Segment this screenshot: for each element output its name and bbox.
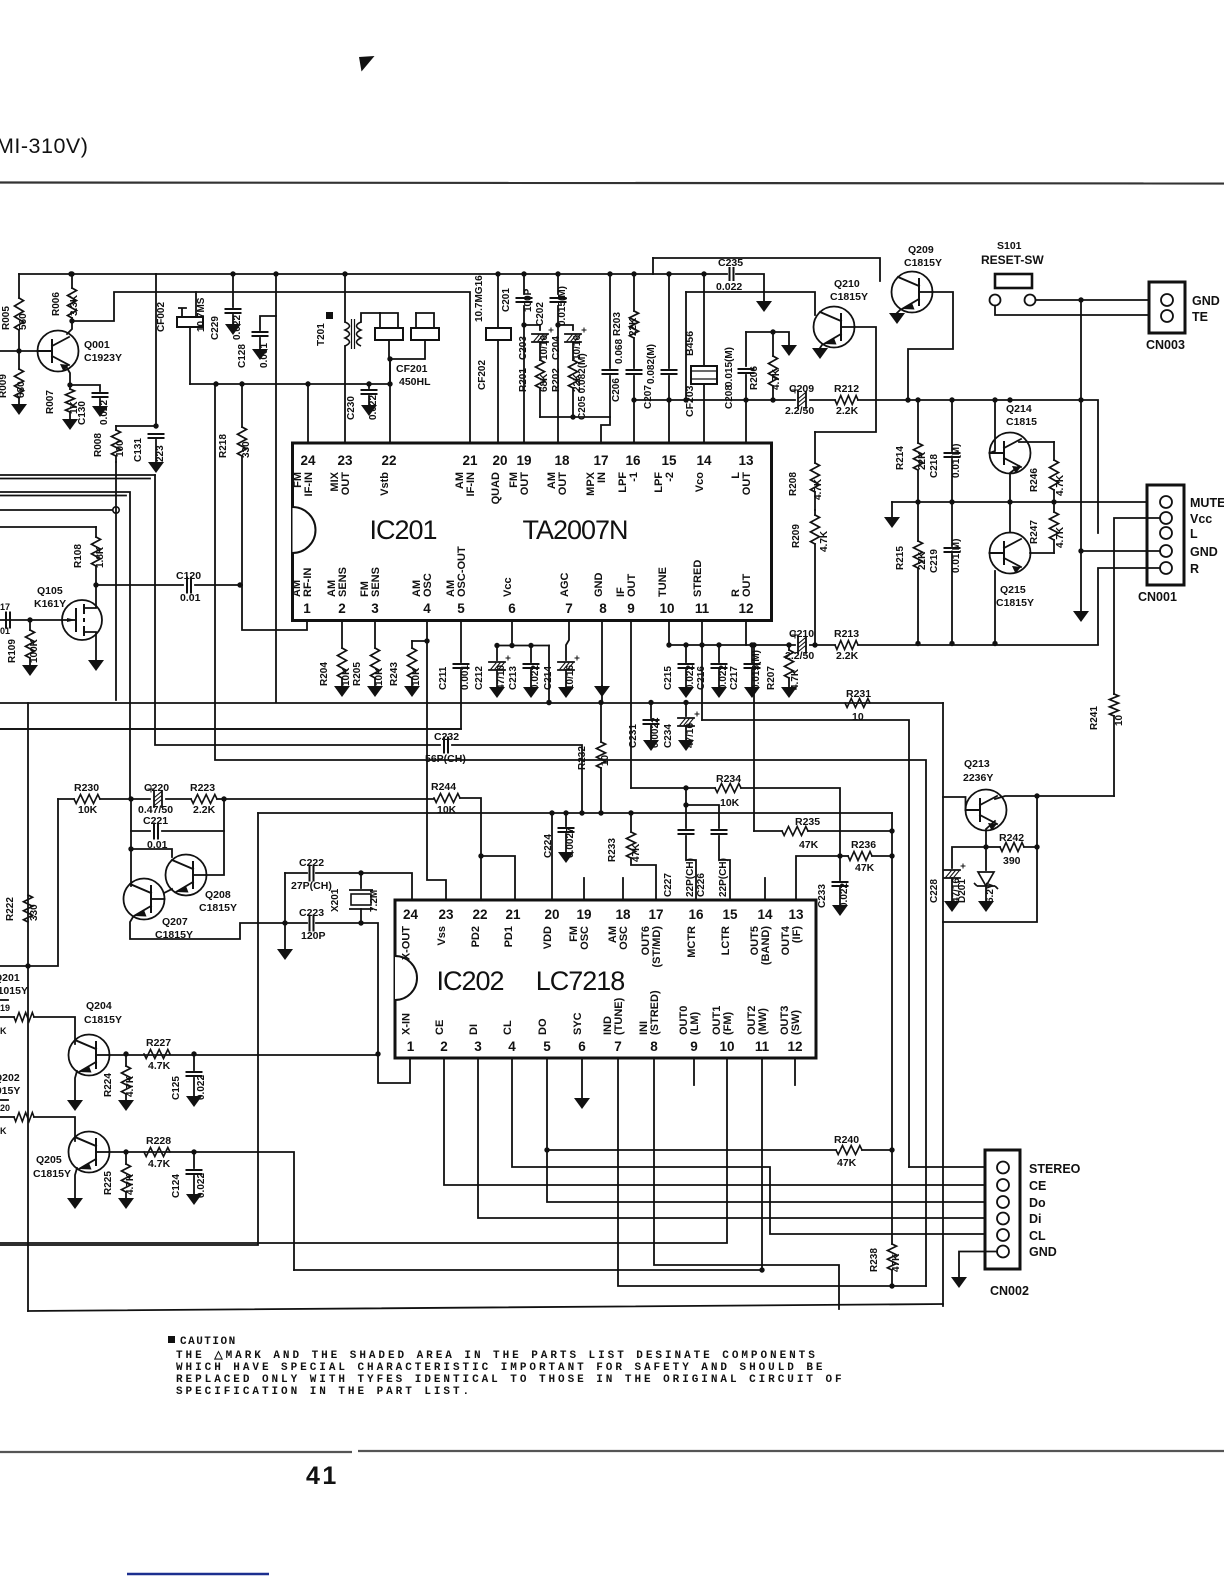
wire R audio bus y644 xyxy=(669,644,795,646)
svg-text:CF002: CF002 xyxy=(156,302,167,332)
ceramic filter CF201 450HL xyxy=(379,313,381,328)
capacitor C226 22P(CH) xyxy=(686,805,719,828)
svg-text:0.068: 0.068 xyxy=(614,339,625,364)
capacitor C216 0.022 xyxy=(718,645,720,662)
svg-text:RESET-SW: RESET-SW xyxy=(981,253,1044,267)
ground Q209 emitter xyxy=(897,310,900,313)
svg-text:R212: R212 xyxy=(834,383,859,395)
svg-text:10/16: 10/16 xyxy=(565,665,576,690)
resistor R207 4.7K xyxy=(788,645,790,650)
bus y702 xyxy=(28,702,943,704)
svg-text:L: L xyxy=(1190,527,1198,541)
svg-text:Q205: Q205 xyxy=(36,1154,62,1166)
svg-text:C208: C208 xyxy=(724,385,735,409)
electrolytic C212 47/10 xyxy=(496,646,498,661)
wire pin2 CE to CN002 xyxy=(444,1058,997,1185)
svg-text:4.7K: 4.7K xyxy=(1055,474,1066,496)
resistor R209 4.7K xyxy=(814,510,816,515)
svg-text:0.015(M): 0.015(M) xyxy=(724,347,735,387)
wire pin4 column down to IC202 Vss xyxy=(427,641,446,900)
svg-text:0.022: 0.022 xyxy=(196,1075,207,1100)
wire y720 pin11 STRED to STEREO xyxy=(702,720,909,1167)
svg-text:0.022: 0.022 xyxy=(196,1173,207,1198)
svg-text:12: 12 xyxy=(787,1039,802,1054)
resistor R215 22K xyxy=(917,502,919,541)
svg-text:X-IN: X-IN xyxy=(401,1013,413,1035)
svg-text:0.022: 0.022 xyxy=(718,665,729,690)
svg-text:OUT: OUT xyxy=(519,472,531,496)
wire pin12 column xyxy=(745,621,747,645)
svg-text:S101: S101 xyxy=(997,240,1022,252)
svg-text:R213: R213 xyxy=(834,628,859,640)
resistor R235 47K xyxy=(754,830,782,832)
svg-text:10: 10 xyxy=(852,711,864,723)
svg-text:R240: R240 xyxy=(834,1134,859,1146)
svg-text:R225: R225 xyxy=(103,1171,114,1195)
resistor R213 2.2K xyxy=(835,641,858,650)
node 216 xyxy=(213,381,218,386)
svg-text:6: 6 xyxy=(578,1039,586,1054)
capacitor C201 100P xyxy=(523,274,525,294)
capacitor C235 0.022 xyxy=(730,268,734,280)
svg-text:C211: C211 xyxy=(438,666,449,690)
svg-text:0.082(M): 0.082(M) xyxy=(646,344,657,384)
capacitor C233 0.022 xyxy=(839,856,841,880)
svg-text:4.7K: 4.7K xyxy=(813,478,824,500)
svg-text:R205: R205 xyxy=(352,662,363,686)
wire pin11 column xyxy=(701,621,703,720)
svg-text:R005: R005 xyxy=(1,306,12,330)
wire xtal bottom rail y923 xyxy=(283,922,307,924)
svg-text:T201: T201 xyxy=(316,323,327,346)
wire CN002 GND to ground xyxy=(959,1252,997,1278)
svg-text:X-OUT: X-OUT xyxy=(401,926,413,961)
svg-text:100K: 100K xyxy=(29,638,40,663)
svg-text:C224: C224 xyxy=(543,834,554,858)
svg-text:R109: R109 xyxy=(7,639,18,663)
electrolytic C214 10/16 (pin7) xyxy=(566,621,569,660)
wire xtal top rail y873 xyxy=(285,872,307,874)
svg-text:C228: C228 xyxy=(929,879,940,903)
wire x258 rail xyxy=(0,813,258,1245)
svg-text:SYC: SYC xyxy=(572,1012,584,1035)
resistor R218 330 xyxy=(241,384,243,427)
blue footer line xyxy=(127,1573,269,1576)
node 308 xyxy=(305,381,310,386)
svg-text:K161Y: K161Y xyxy=(34,598,66,610)
connector CN001 xyxy=(1147,485,1184,585)
svg-text:19: 19 xyxy=(516,453,531,468)
svg-text:6: 6 xyxy=(508,601,516,616)
svg-text:OSC: OSC xyxy=(618,926,630,950)
wire C208 top to R206 xyxy=(746,332,789,345)
wire pin8 INI rail xyxy=(654,1058,839,1309)
svg-text:C209: C209 xyxy=(789,383,814,395)
svg-text:C130: C130 xyxy=(77,401,88,425)
svg-text:0.01(M): 0.01(M) xyxy=(951,444,962,478)
svg-text:C233: C233 xyxy=(817,884,828,908)
svg-text:R228: R228 xyxy=(146,1135,171,1147)
svg-text:2236Y: 2236Y xyxy=(963,772,993,784)
capacitor C205 0.082(M) xyxy=(609,274,611,368)
ceramic filter CF203 B456 xyxy=(703,274,705,366)
svg-text:DO: DO xyxy=(537,1018,549,1035)
svg-text:R207: R207 xyxy=(766,666,777,690)
svg-text:47/10: 47/10 xyxy=(496,665,507,690)
svg-text:11: 11 xyxy=(695,601,710,616)
svg-text:(FM): (FM) xyxy=(722,1011,734,1035)
svg-text:CE: CE xyxy=(434,1020,446,1035)
svg-text:47K: 47K xyxy=(855,862,875,874)
svg-text:8: 8 xyxy=(599,601,607,616)
wire Q205 emitter xyxy=(75,1168,77,1198)
svg-text:2.2K: 2.2K xyxy=(836,405,859,417)
svg-text:5: 5 xyxy=(457,601,465,616)
transistor Q209 C1815Y xyxy=(892,272,933,313)
svg-text:15: 15 xyxy=(661,453,677,468)
svg-text:C201: C201 xyxy=(501,288,512,312)
wire Q207 emitter to rail xyxy=(130,917,285,939)
bus end to Q213 base xyxy=(942,703,944,1306)
capacitor C219 0.01(M) xyxy=(951,502,953,546)
wire Q208 collector xyxy=(206,831,224,875)
svg-text:0.022: 0.022 xyxy=(685,665,696,690)
capacitor C208 0.015(M) xyxy=(745,332,747,366)
svg-text:R202: R202 xyxy=(551,368,562,392)
svg-text:100P: 100P xyxy=(523,288,534,312)
connector CN002 xyxy=(985,1150,1020,1269)
svg-text:4: 4 xyxy=(508,1039,516,1054)
svg-text:SENS: SENS xyxy=(370,567,382,597)
svg-text:223: 223 xyxy=(155,445,166,462)
capacitor C130 xyxy=(70,385,100,391)
svg-text:C232: C232 xyxy=(434,731,459,743)
zener D201 6.2V xyxy=(985,847,987,870)
svg-text:Q213: Q213 xyxy=(964,758,990,770)
transistor Q105 K161Y (FET) xyxy=(62,600,102,640)
svg-text:22K: 22K xyxy=(628,317,639,336)
svg-text:-2: -2 xyxy=(664,472,676,482)
svg-text:0.001: 0.001 xyxy=(460,665,471,690)
svg-text:(IF): (IF) xyxy=(791,926,803,943)
transistor Q215 C1815Y xyxy=(990,533,1031,574)
svg-text:WHICH HAVE SPECIAL CHARACTERIS: WHICH HAVE SPECIAL CHARACTERISTIC IMPORT… xyxy=(176,1362,825,1374)
svg-text:(BAND): (BAND) xyxy=(760,926,772,965)
wire to IC201 pin22 xyxy=(389,359,391,443)
resistor R231 10 xyxy=(845,699,870,708)
svg-text:(ST/MD): (ST/MD) xyxy=(651,926,663,968)
svg-text:R006: R006 xyxy=(51,292,62,316)
svg-text:C213: C213 xyxy=(508,666,519,690)
capacitor C124 0.022 xyxy=(193,1152,195,1168)
resistor R246 4.7K xyxy=(1053,442,1055,460)
wire R008 column continues xyxy=(115,462,117,700)
svg-text:18: 18 xyxy=(615,907,631,922)
wire left rail spur y966 xyxy=(0,799,58,966)
svg-text:0.022: 0.022 xyxy=(99,400,110,425)
resistor R204 10K (pin2) xyxy=(341,621,343,648)
svg-text:47K: 47K xyxy=(799,839,819,851)
svg-text:SPECIFICATION IN THE PART LIST: SPECIFICATION IN THE PART LIST. xyxy=(176,1386,472,1398)
resistor R201 68K xyxy=(539,342,541,360)
wire top-left supply xyxy=(19,273,156,275)
svg-text:Q001: Q001 xyxy=(84,339,110,351)
svg-text:4.7K: 4.7K xyxy=(771,368,782,390)
svg-text:C222: C222 xyxy=(299,857,324,869)
svg-text:3.3K: 3.3K xyxy=(69,294,80,316)
svg-text:IC201: IC201 xyxy=(369,515,436,545)
svg-text:4.7K: 4.7K xyxy=(790,668,801,690)
svg-text:22K: 22K xyxy=(917,551,928,570)
svg-text:C207: C207 xyxy=(643,385,654,409)
resistor R234 10K xyxy=(715,784,741,793)
svg-text:CF201: CF201 xyxy=(396,363,428,375)
svg-text:7: 7 xyxy=(614,1039,622,1054)
wire Q205 base rail R220 xyxy=(0,1116,14,1118)
svg-text:R235: R235 xyxy=(795,816,820,828)
wire S101 to CN003 GND xyxy=(1036,299,1161,301)
svg-text:Di: Di xyxy=(1029,1212,1042,1226)
svg-text:16: 16 xyxy=(688,907,704,922)
svg-text:Q202: Q202 xyxy=(0,1072,20,1084)
wire y760 rail xyxy=(215,384,926,1286)
capacitor C224 0.0027 xyxy=(565,813,567,826)
svg-text:21: 21 xyxy=(462,453,478,468)
svg-text:C206: C206 xyxy=(611,378,622,402)
svg-text:LC7218: LC7218 xyxy=(536,966,625,996)
ground Q105 source xyxy=(88,660,104,671)
capacitor C217 0.015(M) xyxy=(751,645,753,662)
svg-text:R204: R204 xyxy=(319,662,330,686)
svg-text:10: 10 xyxy=(1114,714,1125,726)
svg-text:6.2V: 6.2V xyxy=(985,882,996,903)
svg-text:CN001: CN001 xyxy=(1138,590,1177,604)
ceramic filter CF202 10.7MG16 xyxy=(497,274,499,328)
svg-text:R214: R214 xyxy=(895,446,906,470)
capacitor C222 27P(CH) xyxy=(310,866,314,881)
IC IC201 TA2007N body xyxy=(293,443,772,621)
safety mark square xyxy=(326,312,333,319)
resistor R233 47K xyxy=(630,813,632,832)
ground R007 xyxy=(62,419,78,430)
svg-text:0.0022: 0.0022 xyxy=(650,717,661,748)
svg-text:10.7MS: 10.7MS xyxy=(196,297,207,332)
svg-text:100: 100 xyxy=(115,440,126,457)
resistor R227 4.7K xyxy=(144,1050,170,1059)
svg-text:C120: C120 xyxy=(176,570,201,582)
svg-text:24: 24 xyxy=(403,907,419,922)
ground C131 xyxy=(148,462,164,473)
svg-text:10K: 10K xyxy=(341,667,352,686)
capacitor C204 10/16 xyxy=(558,325,573,330)
svg-text:0.022: 0.022 xyxy=(530,665,541,690)
transistor Q001 C1923Y xyxy=(38,331,79,372)
svg-text:IC202: IC202 xyxy=(436,966,503,996)
wire to IC201 pin24 xyxy=(307,384,309,443)
capacitor C223 120P xyxy=(310,916,314,931)
wire x686 xyxy=(685,292,687,400)
svg-text:(TUNE): (TUNE) xyxy=(613,997,625,1035)
transistor Q204 C1815Y xyxy=(69,1035,110,1076)
svg-text:Vcc: Vcc xyxy=(502,577,514,597)
svg-text:LCTR: LCTR xyxy=(720,926,732,955)
svg-text:Q204: Q204 xyxy=(86,1000,112,1012)
connector CN003 xyxy=(1149,282,1185,333)
svg-text:C1923Y: C1923Y xyxy=(84,352,122,364)
svg-text:C1815Y: C1815Y xyxy=(904,257,942,269)
svg-text:C204: C204 xyxy=(551,336,562,360)
capacitor C128 xyxy=(260,316,276,330)
svg-text:22P(CH): 22P(CH) xyxy=(685,858,696,897)
svg-text:C1015Y: C1015Y xyxy=(0,985,28,997)
resistor R202 22K xyxy=(572,342,574,360)
svg-text:20: 20 xyxy=(544,907,559,922)
svg-text:OUT: OUT xyxy=(340,472,352,496)
wire Q001 base xyxy=(0,350,38,352)
bottom rule xyxy=(0,1451,1224,1452)
svg-text:15: 15 xyxy=(722,907,738,922)
svg-text:OSC-OUT: OSC-OUT xyxy=(456,546,468,597)
svg-text:C231: C231 xyxy=(628,724,639,748)
capacitor C215 0.022 xyxy=(685,645,687,662)
svg-text:390: 390 xyxy=(1003,855,1021,867)
wire rail y478 twin xyxy=(0,478,150,480)
svg-text:C124: C124 xyxy=(171,1174,182,1198)
svg-text:4.7K: 4.7K xyxy=(148,1158,171,1170)
svg-text:68K: 68K xyxy=(539,373,550,392)
svg-text:R246: R246 xyxy=(1029,468,1040,492)
bottom rail y1306 xyxy=(28,1304,943,1311)
wire collector rail y1054 xyxy=(109,1054,378,1056)
svg-text:7: 7 xyxy=(565,601,573,616)
svg-text:22P(CH): 22P(CH) xyxy=(718,858,729,897)
svg-text:THE △MARK AND THE SHADED AREA: THE △MARK AND THE SHADED AREA IN THE PAR… xyxy=(176,1350,818,1362)
wire pin5 DO to CN002 xyxy=(547,1058,997,1202)
svg-text:CL: CL xyxy=(1029,1229,1046,1243)
resistor R240 47K xyxy=(547,1149,836,1151)
svg-text:47K: 47K xyxy=(891,1253,902,1272)
svg-text:R: R xyxy=(1190,562,1199,576)
wire rail y496 twin xyxy=(0,495,126,497)
svg-text:11: 11 xyxy=(755,1039,770,1054)
svg-text:IN: IN xyxy=(596,472,608,483)
resistor R232 10 xyxy=(600,703,602,742)
svg-text:C229: C229 xyxy=(210,316,221,340)
ground S101 branch xyxy=(1073,611,1089,622)
wire R223 to R244 rail y798 xyxy=(224,798,434,800)
svg-text:680: 680 xyxy=(16,381,27,398)
wire pin19 stub xyxy=(583,878,585,900)
node R006 bottom xyxy=(69,318,74,323)
svg-text:0.015(M): 0.015(M) xyxy=(751,650,762,690)
svg-text:R234: R234 xyxy=(716,773,741,785)
wire pin18 stub xyxy=(622,878,624,900)
svg-text:17: 17 xyxy=(0,602,10,612)
wire collector to AM IF line xyxy=(72,292,470,443)
wire y745 C232 rail xyxy=(155,475,440,745)
svg-text:C1815Y: C1815Y xyxy=(84,1014,122,1026)
svg-text:R247: R247 xyxy=(1029,520,1040,544)
node R108 bottom xyxy=(93,582,98,587)
svg-text:R230: R230 xyxy=(74,782,99,794)
svg-text:1: 1 xyxy=(303,601,311,616)
node R006 top xyxy=(69,271,74,276)
ground C235 xyxy=(756,301,772,312)
resistor R108 1.8K xyxy=(95,527,97,537)
svg-text:K: K xyxy=(0,1126,7,1136)
svg-text:C216: C216 xyxy=(696,666,707,690)
svg-text:R208: R208 xyxy=(788,472,799,496)
wire x276 vertical xyxy=(275,274,277,702)
capacitor C213 0.022 xyxy=(530,646,532,663)
svg-text:2.2/50: 2.2/50 xyxy=(785,405,814,417)
resistor R007 xyxy=(69,385,71,389)
node 390 xyxy=(387,381,392,386)
node Q001 emitter xyxy=(67,382,72,387)
svg-text:R227: R227 xyxy=(146,1037,171,1049)
svg-text:C214: C214 xyxy=(543,666,554,690)
wire Q213 emitter xyxy=(986,821,995,847)
svg-text:C226: C226 xyxy=(696,873,707,897)
svg-text:GND: GND xyxy=(1029,1245,1057,1259)
svg-text:R224: R224 xyxy=(103,1073,114,1097)
wire L bus y400 xyxy=(634,399,795,401)
electrolytic C210 2.2/50 xyxy=(798,637,806,653)
svg-text:3: 3 xyxy=(474,1039,482,1054)
transistor Q214 C1815 xyxy=(990,433,1031,474)
svg-text:RF-IN: RF-IN xyxy=(302,568,314,597)
resistor R203 22K + capacitor C206 0.068 xyxy=(633,274,635,311)
svg-text:C1815Y: C1815Y xyxy=(199,902,237,914)
svg-text:Q210: Q210 xyxy=(834,278,860,290)
svg-text:C230: C230 xyxy=(346,396,357,420)
svg-text:56P(CH): 56P(CH) xyxy=(425,753,466,765)
svg-text:4.7K: 4.7K xyxy=(125,1075,136,1097)
wire R pin xyxy=(1098,568,1160,644)
svg-text:MCTR: MCTR xyxy=(686,926,698,958)
wire R-path feeder y646 xyxy=(668,621,670,645)
svg-text:CE: CE xyxy=(1029,1179,1046,1193)
svg-text:330: 330 xyxy=(241,441,252,458)
svg-text:Q207: Q207 xyxy=(162,916,188,928)
svg-text:8: 8 xyxy=(650,1039,658,1054)
svg-text:R222: R222 xyxy=(5,897,16,921)
transistor Q210 C1815Y xyxy=(814,307,855,348)
svg-text:3: 3 xyxy=(371,601,379,616)
svg-text:4.7K: 4.7K xyxy=(148,1060,171,1072)
svg-text:C212: C212 xyxy=(474,666,485,690)
wire xtal left leg xyxy=(284,873,286,949)
resistor R005 xyxy=(18,274,20,298)
wire pin6 SYC ground xyxy=(581,1058,583,1098)
crystal X201 7.2M xyxy=(360,873,362,888)
svg-text:C205 0.082(M): C205 0.082(M) xyxy=(577,353,588,420)
svg-text:C210: C210 xyxy=(789,628,814,640)
svg-text:VDD: VDD xyxy=(542,926,554,949)
svg-text:01: 01 xyxy=(0,626,10,636)
capacitor C203 10/16 xyxy=(524,325,540,330)
resistor R206 4.7K xyxy=(772,332,774,356)
capacitor C221 0.01 xyxy=(131,799,150,831)
wire pin8 to bus xyxy=(601,686,603,703)
svg-text:17: 17 xyxy=(593,453,608,468)
capacitor C211 0.001 (pin5) xyxy=(460,621,462,662)
svg-text:2: 2 xyxy=(440,1039,448,1054)
svg-text:4.7K: 4.7K xyxy=(1055,526,1066,548)
svg-text:(MW): (MW) xyxy=(757,1008,769,1035)
svg-text:DI: DI xyxy=(468,1024,480,1035)
svg-text:C215: C215 xyxy=(663,666,674,690)
